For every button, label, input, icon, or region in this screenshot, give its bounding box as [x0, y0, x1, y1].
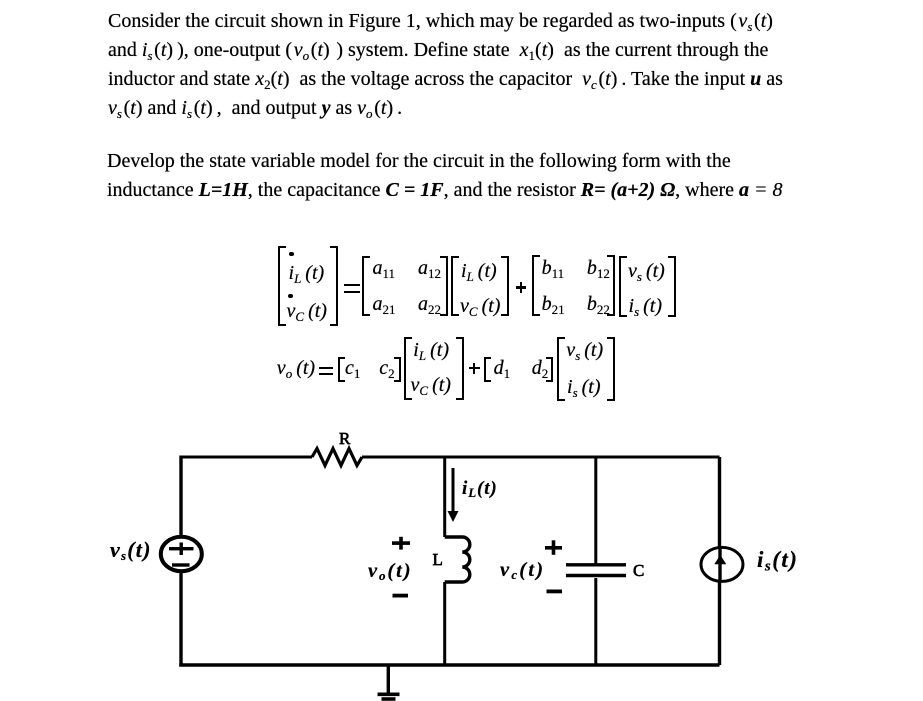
- wire: left bottom: [179, 571, 182, 667]
- EQUATION 2: [277, 358, 315, 378]
- current source is(t): [701, 547, 743, 581]
- vector [iL vC]: [451, 256, 459, 317]
- equals: [344, 284, 361, 286]
- resistor R: [312, 449, 362, 466]
- plus: [516, 286, 527, 288]
- capacitor C plates: [566, 563, 626, 566]
- wire: capacitor branch top: [594, 457, 597, 564]
- paragraph 1: [108, 7, 783, 124]
- label + (vc): [545, 540, 562, 555]
- ground: [387, 665, 390, 694]
- wire: inductor branch bottom: [443, 582, 446, 665]
- paragraph 2: [107, 147, 782, 206]
- svg-text:R: R: [339, 429, 351, 448]
- label + (vo): [392, 537, 410, 550]
- wire: bottom: [179, 663, 719, 666]
- wire: left top: [179, 456, 182, 538]
- current arrow iL(t): [452, 468, 455, 514]
- wire: capacitor branch bottom: [594, 578, 597, 665]
- wire: inductor branch top: [443, 457, 446, 537]
- vector [vs is]: [557, 337, 565, 402]
- label - (vo): [393, 594, 409, 598]
- wire: top left segment: [181, 456, 313, 459]
- svg-text:is(t): is(t): [757, 547, 798, 575]
- label - (vc): [547, 590, 563, 594]
- wire: top right segment: [362, 456, 720, 459]
- svg-text:vo(t): vo(t): [368, 560, 412, 583]
- svg-text:vc(t): vc(t): [500, 559, 545, 582]
- svg-text:L: L: [433, 550, 443, 569]
- vector [vs is]: [619, 256, 627, 317]
- vector [iL vC]: [404, 337, 412, 400]
- wire: right: [718, 457, 721, 665]
- inductor L coil: [445, 537, 470, 582]
- svg-text:C: C: [633, 561, 644, 580]
- left dotted vector: [278, 246, 286, 325]
- plus: [469, 367, 480, 369]
- voltage source vs(t): [161, 537, 202, 571]
- svg-text:iL(t): iL(t): [462, 478, 498, 500]
- svg-text:vs(t): vs(t): [110, 537, 152, 563]
- matrix A: [362, 256, 370, 317]
- matrix B: [532, 255, 540, 316]
